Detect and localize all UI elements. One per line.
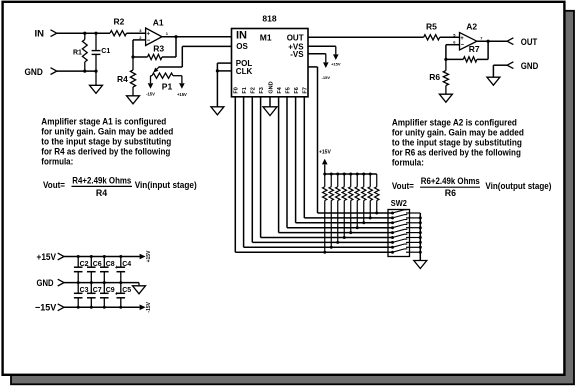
svg-text:for R6 as derived by the follo: for R6 as derived by the following: [392, 147, 521, 157]
capacitor C7: [90, 283, 92, 294]
op-amp A1: [146, 28, 162, 46]
svg-text:-15V: -15V: [146, 301, 152, 312]
wire GND pin to ground: [269, 97, 271, 107]
wire A2 output: [477, 40, 507, 42]
svg-text:OS: OS: [236, 42, 248, 51]
resistor R5: [424, 35, 440, 40]
svg-text:818: 818: [262, 13, 276, 23]
svg-text:formula:: formula:: [41, 157, 73, 167]
wire F3 to SW2: [260, 97, 262, 238]
svg-text:+: +: [115, 291, 118, 297]
junction CLK: [216, 69, 219, 72]
svg-text:−15V: −15V: [35, 303, 57, 314]
junction R7/R6: [444, 58, 447, 61]
svg-text:+: +: [147, 32, 151, 38]
wire M1 OUT to R5: [308, 36, 424, 38]
SW2 ground bus: [419, 213, 421, 261]
wire CLK: [217, 70, 231, 72]
ground below R4: [127, 96, 140, 104]
switch SW2 blades: [391, 212, 394, 215]
wire R2 to A1 +input: [127, 32, 146, 34]
capacitor C8: [103, 257, 105, 268]
wire GND rail: [57, 70, 96, 72]
svg-text:F5: F5: [285, 87, 291, 93]
ground below SW2 bus: [414, 261, 427, 269]
svg-text:formula:: formula:: [392, 157, 424, 167]
svg-text:+15V: +15V: [146, 250, 152, 262]
wire F0 to SW2: [234, 97, 236, 252]
pull-up resistor 9: [376, 174, 378, 187]
connector -15V: [58, 304, 64, 311]
pull-up resistor 7: [363, 174, 365, 187]
+15V rail junctions: [77, 255, 80, 258]
svg-text:C5: C5: [122, 287, 131, 294]
svg-text:+15V: +15V: [37, 252, 57, 263]
SW2 output stubs to bus: [406, 212, 420, 214]
IC M1 body (818 switch): [232, 29, 309, 97]
svg-text:F1: F1: [242, 87, 248, 93]
resistor R4: [132, 57, 134, 70]
resistor R6: [445, 59, 447, 70]
resistor array rail: [325, 173, 377, 175]
svg-text:for unity gain. Gain may be ad: for unity gain. Gain may be added: [392, 127, 524, 137]
junction A2 output: [487, 40, 490, 43]
pull-up resistor 4: [343, 174, 345, 187]
GND rail ground symbol: [138, 283, 140, 286]
pull-up resistor 5: [350, 174, 352, 187]
svg-text:SW2: SW2: [391, 198, 407, 208]
-15V rail junctions: [77, 306, 80, 309]
capacitor C6: [90, 257, 92, 268]
wire F1 to SW2: [243, 97, 245, 248]
svg-text:+15V: +15V: [319, 149, 331, 155]
resistor R1: [83, 32, 86, 35]
svg-text:−: −: [147, 38, 151, 44]
capacitor C3: [77, 283, 79, 294]
connector GND output: [507, 62, 513, 69]
junctions on rail: [323, 173, 326, 176]
svg-text:−: −: [461, 42, 465, 48]
svg-text:GND: GND: [37, 278, 54, 289]
connector GND power: [58, 279, 64, 286]
svg-text:R1: R1: [73, 50, 82, 57]
ground POL/CLK: [211, 107, 224, 115]
svg-text:R4: R4: [117, 74, 128, 84]
svg-text:C8: C8: [106, 261, 115, 268]
svg-text:IN: IN: [35, 29, 45, 40]
svg-text:F4: F4: [277, 86, 283, 93]
wire R3 to node: [133, 56, 148, 58]
pull-up resistor 1: [324, 174, 326, 187]
connector GND: [51, 68, 57, 75]
svg-text:F2: F2: [251, 87, 257, 93]
svg-text:for unity gain. Gain may be ad: for unity gain. Gain may be added: [41, 127, 173, 137]
pull-up resistor 6: [356, 174, 358, 187]
op-amp A2: [460, 33, 477, 50]
svg-text:C4: C4: [122, 261, 131, 268]
P1 right terminal to +15V: [173, 75, 182, 77]
svg-text:R6: R6: [429, 72, 440, 82]
svg-text:Vout=: Vout=: [392, 181, 414, 191]
svg-text:R4: R4: [96, 188, 107, 198]
wire F6 to SW2: [295, 97, 297, 223]
svg-text:IN: IN: [236, 30, 247, 42]
svg-text:OUT: OUT: [287, 33, 304, 42]
wire F2 to SW2: [251, 97, 253, 243]
wire A1 -input: [133, 39, 146, 41]
svg-text:for R4 as derived by the follo: for R4 as derived by the following: [41, 147, 170, 157]
wire wiper to OS: [159, 66, 183, 68]
resistor R7: [463, 57, 477, 62]
capacitor C4: [120, 257, 122, 268]
capacitor C5: [120, 283, 122, 294]
svg-text:C1: C1: [101, 48, 110, 55]
wire C1 to ground: [95, 71, 97, 85]
ground below GND pin: [263, 107, 277, 116]
svg-text:R5: R5: [426, 21, 437, 31]
svg-text:F6: F6: [294, 87, 300, 93]
svg-text:P1: P1: [162, 82, 173, 92]
svg-text:-15V: -15V: [322, 75, 331, 80]
svg-text:GND: GND: [521, 61, 539, 72]
svg-text:F7: F7: [303, 87, 309, 93]
svg-text:GND: GND: [268, 81, 274, 93]
svg-text:R7: R7: [469, 44, 480, 54]
svg-text:F3: F3: [259, 87, 265, 93]
connector +15V: [58, 253, 64, 260]
connector IN: [51, 30, 57, 37]
svg-text:A2: A2: [466, 21, 477, 31]
wire output to R7: [487, 41, 489, 59]
svg-text:C9: C9: [106, 287, 115, 294]
wire R5 to A2: [440, 36, 460, 38]
GND rail: [64, 282, 139, 284]
GND rail junctions: [77, 281, 80, 284]
svg-text:M1: M1: [260, 32, 272, 42]
svg-text:+: +: [460, 36, 464, 42]
wire A2 -input: [446, 44, 460, 46]
wire POL/CLK to ground: [216, 63, 218, 107]
svg-text:R3: R3: [153, 44, 164, 54]
svg-text:Amplifier stage A2 is configur: Amplifier stage A2 is configured: [392, 117, 517, 127]
junction A1 output: [174, 35, 177, 38]
P1 left terminal to -15V: [151, 75, 153, 77]
ground below R6: [439, 94, 452, 102]
svg-text:F0: F0: [234, 87, 240, 93]
pull-up resistor 2: [330, 174, 332, 187]
svg-text:Vin(input stage): Vin(input stage): [135, 180, 197, 190]
+VS supply: [308, 45, 336, 47]
svg-text:R4+2.49k Ohms: R4+2.49k Ohms: [72, 176, 131, 186]
svg-text:Vin(output stage): Vin(output stage): [485, 181, 551, 191]
wire M1 right pin to SW2 row 1: [308, 66, 318, 68]
switch SW2 box: [388, 210, 410, 257]
-VS supply: [308, 53, 326, 55]
wire output to R3: [175, 37, 177, 57]
svg-text:Amplifier stage A1 is configur: Amplifier stage A1 is configured: [41, 117, 166, 127]
connector OUT: [507, 38, 513, 45]
capacitor C9: [103, 283, 105, 294]
wire A1 output to M1 IN: [162, 36, 232, 38]
svg-text:Vout=: Vout=: [43, 180, 65, 190]
resistor R3: [148, 54, 163, 59]
svg-text:A1: A1: [153, 17, 164, 27]
svg-text:R6: R6: [445, 188, 456, 198]
wire GND connector to ground: [492, 65, 494, 77]
wire POL: [217, 62, 231, 64]
svg-text:CLK: CLK: [236, 67, 253, 76]
ground below GND connector: [487, 77, 500, 85]
wire F5 to SW2: [286, 97, 288, 228]
+15V arrow for resistor array: [324, 164, 326, 174]
capacitor C2: [77, 257, 79, 268]
wire R7 to node: [446, 58, 463, 60]
potentiometer P1: [152, 73, 173, 78]
pull-up resistor 3: [337, 174, 339, 187]
junction R3/R4/-input: [131, 55, 134, 58]
+15V rail: [64, 256, 140, 258]
svg-text:OUT: OUT: [521, 37, 538, 48]
capacitor C1: [94, 32, 97, 35]
svg-text:R6+2.49k Ohms: R6+2.49k Ohms: [421, 176, 480, 186]
wire IN to R2: [57, 32, 110, 34]
-15V rail: [64, 306, 140, 308]
svg-text:-15V: -15V: [146, 92, 155, 97]
pull-up resistor 8: [369, 174, 371, 187]
-15V rail arrow: [140, 305, 146, 311]
svg-text:+15V: +15V: [331, 62, 341, 67]
svg-text:to the input stage by substitu: to the input stage by substituting: [41, 137, 171, 147]
P1 wiper arrow: [157, 67, 160, 70]
wire F7 to SW2: [303, 97, 305, 218]
svg-text:GND: GND: [25, 67, 43, 78]
ground below C1: [90, 85, 103, 93]
resistor R2: [110, 31, 127, 36]
wire F4 to SW2: [278, 97, 280, 233]
svg-text:R2: R2: [114, 17, 125, 27]
svg-text:to the input stage by substitu: to the input stage by substituting: [392, 137, 522, 147]
+15V rail arrow: [140, 254, 146, 260]
svg-text:+15V: +15V: [177, 92, 187, 97]
svg-text:+: +: [115, 265, 118, 271]
svg-text:-VS: -VS: [290, 50, 304, 59]
